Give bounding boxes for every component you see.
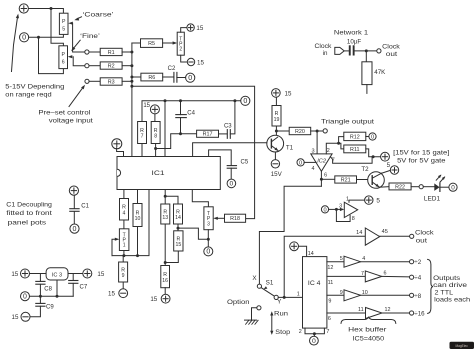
capacitor C4 (176, 114, 187, 116)
potentiometer TP2 (177, 32, 184, 55)
svg-text:R1: R1 (108, 50, 115, 56)
node junction on + wire (50, 7, 53, 10)
svg-text:15: 15 (175, 242, 181, 248)
switch S1 blade (261, 288, 274, 297)
terminal div8 (410, 293, 414, 297)
terminal triangle output (323, 129, 327, 133)
wire 0 to gate input (329, 208, 341, 210)
node gate feedback junction (335, 208, 338, 211)
wire IC4 pins 2 7 ground (305, 328, 324, 334)
terminal R3 preset input (85, 79, 89, 83)
transistor T2 (368, 172, 385, 189)
node C8 junction (39, 295, 42, 298)
wire 0 rail to IC1 pin (164, 101, 166, 157)
svg-text:1: 1 (123, 243, 126, 249)
svg-text:R12: R12 (350, 134, 360, 140)
wire + to C1 (73, 195, 75, 208)
wire node to R11 (339, 143, 344, 149)
wire feedback R18 to bus (132, 86, 255, 218)
svg-text:Clock: Clock (415, 229, 435, 236)
wire T1 collector (275, 131, 277, 136)
wire R14 node to TP3 bottom (178, 228, 208, 239)
svg-text:C4: C4 (187, 110, 195, 116)
wire R9 to -15 (122, 282, 124, 289)
wire R21 to T2 base (357, 179, 368, 181)
svg-text:T1: T1 (286, 145, 294, 152)
svg-text:10µF: 10µF (347, 39, 361, 46)
svg-text:out: out (386, 51, 398, 58)
svg-text:12: 12 (385, 307, 391, 313)
watermark box (450, 342, 474, 349)
terminal 0 gate input (321, 206, 328, 213)
wire gate pin1 to +5 (349, 200, 365, 202)
terminal + IC1 left (112, 139, 122, 149)
wire oscillator output to switch X (259, 186, 321, 284)
svg-text:Network 1: Network 1 (334, 29, 369, 36)
svg-text:9: 9 (122, 273, 125, 279)
svg-text:11: 11 (328, 280, 334, 286)
svg-text:5V for 5V gate: 5V for 5V gate (397, 158, 446, 165)
svg-text:15: 15 (197, 59, 204, 66)
svg-text:Clock: Clock (382, 44, 401, 51)
node C3 0-rail junction (233, 99, 236, 102)
svg-text:5: 5 (62, 26, 65, 32)
capacitor C5 (227, 165, 236, 167)
svg-text:loads each: loads each (434, 297, 471, 304)
wire Y to IC4 pin1 (278, 296, 302, 298)
svg-text:C3: C3 (224, 123, 232, 129)
terminal R1 input (85, 50, 89, 54)
brace hex buffer (341, 317, 396, 323)
terminal +15 R16 (161, 294, 170, 303)
wire R3 input to R3 (89, 80, 100, 82)
terminal + IC4 supply (290, 242, 299, 251)
svg-text:15: 15 (12, 314, 19, 321)
svg-text:0: 0 (243, 97, 247, 105)
svg-text:Option: Option (227, 299, 250, 306)
wire R1 to bus (122, 51, 132, 53)
wire TP2 top to +15 (181, 28, 187, 33)
node 47K junction (365, 49, 368, 52)
svg-text:11: 11 (358, 307, 364, 313)
svg-text:9: 9 (328, 298, 331, 304)
wire to IC2 pin 3 (316, 131, 318, 154)
svg-text:6: 6 (324, 172, 327, 178)
wire R4 to TP1 (123, 220, 125, 229)
capacitor C9 (36, 302, 45, 304)
resistor R1 (100, 48, 122, 55)
wire R11 to supply + (366, 149, 381, 157)
svg-text:C1 Decoupling: C1 Decoupling (6, 202, 52, 209)
node TP3 bottom junction (207, 238, 210, 241)
svg-text:fitted to front: fitted to front (6, 210, 52, 217)
terminal 0 TP3 (204, 247, 213, 256)
wire buffer to div16 (382, 312, 409, 314)
wire IC1 to TP1 rail (112, 190, 149, 256)
wire C4 top to 0 rail (180, 101, 182, 115)
wire C7 top (72, 274, 74, 281)
svg-text:R5: R5 (148, 41, 155, 47)
wire + to IC1 pin (117, 148, 124, 157)
capacitor C3 (226, 130, 228, 139)
wire clock to buffer (284, 236, 365, 297)
terminal +15 above R8 (150, 105, 159, 114)
svg-text:0: 0 (299, 160, 302, 166)
IC IC4 (303, 257, 327, 329)
wire R13 bottom to R16 (164, 224, 166, 266)
node C4 top junction (179, 99, 182, 102)
svg-text:S1: S1 (266, 279, 274, 286)
svg-text:R3: R3 (108, 79, 115, 85)
resistor R10 (133, 204, 142, 227)
svg-text:out: out (416, 238, 428, 245)
wire P6 wiper to R2 input (73, 57, 85, 66)
svg-text:0: 0 (371, 134, 374, 140)
wiper arrow P5 (68, 22, 73, 25)
terminal +15 IC3 left (21, 269, 30, 278)
wire +15 to IC3 (30, 273, 47, 275)
svg-text:C1: C1 (81, 204, 89, 210)
terminal 0 IC4 (310, 336, 319, 345)
svg-text:Hex buffer: Hex buffer (348, 326, 386, 333)
resistor R8 (151, 122, 160, 144)
label Run with arrow (271, 315, 273, 332)
wire rail to R9 (122, 256, 124, 262)
svg-text:4: 4 (123, 210, 126, 216)
terminal div16 (410, 311, 414, 315)
wire junction to R14 (165, 196, 178, 204)
node R13 R15 R16 junction (164, 261, 167, 264)
node R13 R14 junction (164, 195, 167, 198)
wire +15 to R8 (154, 114, 156, 122)
wire R22 to LED node (411, 186, 419, 188)
wire C1 to 0 (73, 212, 75, 225)
terminal +15 IC3 right (83, 269, 92, 278)
wire capacitor to clock out (355, 50, 377, 52)
svg-text:Stop: Stop (275, 329, 290, 336)
wire IC1 to R10 (137, 190, 139, 204)
resistor R16 (161, 266, 170, 288)
wire 0 junction to P6 bottom (39, 37, 64, 73)
svg-text:Triangle output: Triangle output (321, 118, 374, 125)
terminal -15 TP2 (187, 58, 194, 65)
svg-text:0: 0 (312, 338, 316, 345)
terminal 0 C1 (70, 224, 79, 233)
svg-text:14: 14 (356, 230, 362, 236)
wire TP1 bottom to rail (123, 251, 125, 256)
wire + terminal to P5 top (28, 9, 63, 14)
wire R6 to C2 (163, 76, 174, 78)
svg-text:Outputs: Outputs (433, 275, 460, 282)
wire R8 to IC1 (155, 144, 157, 157)
svg-text:0: 0 (451, 184, 455, 191)
resistor R6 (141, 73, 163, 81)
wire C2 to 0 terminal (177, 77, 186, 79)
terminal +5 T2 (390, 166, 398, 174)
resistor R13 (161, 204, 170, 224)
svg-text:15: 15 (97, 271, 104, 278)
terminal 0 LED (449, 183, 457, 191)
wire R10 to rail (137, 227, 139, 256)
wire R20 to triangle output (311, 130, 323, 132)
svg-text:voltage input: voltage input (49, 118, 93, 125)
svg-text:R17: R17 (203, 132, 213, 138)
wire IC1 to R4 (123, 190, 125, 199)
svg-text:6: 6 (62, 60, 65, 66)
node R14 R15 junction (177, 227, 180, 230)
wire 0 rail IC3 (30, 295, 74, 297)
svg-text:6: 6 (384, 271, 387, 277)
terminal + gate supply (381, 152, 390, 161)
resistor 47K (362, 62, 372, 85)
svg-text:T2: T2 (361, 166, 369, 173)
wire R17 to C3 (219, 133, 228, 135)
wire IC1 pin to C5 (209, 150, 232, 165)
terminal 0 rail right (241, 96, 250, 105)
wire R15 to junction (165, 251, 178, 263)
wire C4 bottom to R17 wire (180, 118, 182, 134)
svg-text:5: 5 (340, 256, 343, 262)
wire arrow to capacitor (344, 50, 348, 52)
resistor R3 (100, 78, 122, 85)
wire 47K bottom (366, 85, 368, 94)
node 0-rail IC1 pin junction (164, 99, 167, 102)
svg-text:3: 3 (311, 148, 314, 154)
svg-text:13: 13 (162, 215, 168, 221)
wire IC3 ground pin (56, 280, 58, 296)
svg-text:8: 8 (154, 134, 157, 140)
svg-text:0: 0 (230, 181, 234, 188)
wire C8 top (39, 274, 41, 282)
capacitor C1 (70, 208, 79, 210)
resistor R20 (289, 127, 311, 134)
svg-text:‘Fine’: ‘Fine’ (80, 33, 100, 40)
svg-text:0: 0 (23, 294, 27, 301)
op-amp IC2 (311, 154, 332, 171)
svg-text:1: 1 (297, 291, 300, 297)
wire C3 to 0 rail (230, 101, 235, 134)
svg-text:0: 0 (22, 34, 26, 42)
ground symbol (245, 319, 257, 321)
wire 0 terminal to P5 bottom (29, 34, 64, 37)
wire + junction to P6 top (51, 9, 63, 46)
resistor R11 (344, 145, 366, 153)
wire T1 emitter to -15V (274, 152, 276, 160)
node R6 junction (130, 76, 133, 79)
resistor R14 (174, 204, 183, 224)
potentiometer TP1 (119, 229, 128, 251)
node ground junction (313, 332, 316, 335)
svg-text:R20: R20 (295, 129, 305, 135)
wire buffer to div4 (382, 275, 410, 278)
terminal 0 R12 (369, 133, 376, 140)
svg-text:3: 3 (207, 221, 210, 227)
node R8 R17 junction (154, 147, 157, 150)
svg-text:12: 12 (327, 265, 333, 271)
wire R12 to 0 (366, 136, 369, 138)
wire C8 bottom to 0 rail (39, 284, 41, 296)
wire IC1 to TP3 (192, 190, 208, 207)
svg-text:R22: R22 (395, 184, 405, 190)
svg-text:14: 14 (175, 215, 181, 221)
resistor R5 (141, 39, 163, 48)
svg-text:7: 7 (141, 134, 144, 140)
clock in arrow symbol (335, 47, 344, 54)
wire R17 to R8 pin (156, 134, 197, 149)
svg-text:2: 2 (327, 148, 330, 154)
terminal clock out network (377, 49, 381, 53)
wire summing bus vertical (131, 43, 133, 157)
resistor R19 (272, 106, 281, 127)
IC IC1 (117, 157, 220, 190)
svg-text:panel pots: panel pots (8, 219, 47, 226)
annotation arrow Coarse (76, 17, 81, 19)
wire R2 input to R2 (89, 65, 100, 67)
wire LED1 to 0 (440, 186, 449, 188)
svg-text:7: 7 (361, 271, 364, 277)
svg-text:P: P (62, 19, 66, 25)
wire C9 bottom to -15 (30, 306, 40, 317)
svg-text:8: 8 (352, 216, 355, 222)
wire T2 collector to +5 (382, 170, 391, 173)
svg-text:45: 45 (382, 229, 388, 235)
resistor R4 (120, 199, 129, 221)
svg-text:15: 15 (143, 103, 150, 109)
svg-text:R21: R21 (341, 177, 351, 183)
node IC2 pin3 junction (316, 130, 319, 133)
svg-text:C2: C2 (168, 66, 176, 72)
wire 0 to IC2 pin4 (304, 161, 316, 163)
wire IC4 to buffer 7-6 (327, 275, 365, 277)
svg-text:IC2: IC2 (317, 158, 327, 164)
terminal 0 C5 (227, 179, 236, 188)
terminal 0 IC3 (21, 292, 30, 301)
svg-text:4: 4 (312, 166, 315, 172)
svg-text:IC1: IC1 (152, 170, 165, 177)
terminal div4 (410, 275, 414, 279)
wire +15 to R19 (275, 97, 277, 105)
svg-text:R2: R2 (108, 63, 115, 69)
wire TP3 wiper to R18 (217, 217, 225, 219)
buffer gate spare (344, 202, 357, 217)
resistor R17 (197, 130, 219, 137)
node C4 R17 junction (179, 132, 182, 135)
svg-text:Pre–set control: Pre–set control (38, 110, 90, 117)
wiper arrow TP3 (213, 217, 218, 220)
svg-text:47K: 47K (374, 69, 386, 76)
terminal R2 input (85, 64, 89, 68)
svg-text:÷8: ÷8 (414, 293, 421, 300)
brace outputs (428, 259, 433, 313)
wire IC1 to R13 R14 (164, 190, 166, 205)
wire C9 top (39, 296, 41, 303)
svg-text:2: 2 (179, 47, 182, 53)
svg-text:9: 9 (340, 290, 343, 296)
node feedback junction (130, 85, 133, 88)
svg-text:÷2: ÷2 (414, 259, 421, 266)
svg-text:2: 2 (299, 329, 302, 335)
annotation arrow preset input (69, 87, 84, 107)
wire IC2 pin6 output (320, 171, 322, 186)
svg-text:0: 0 (323, 207, 326, 213)
svg-text:0: 0 (73, 225, 77, 233)
svg-text:15: 15 (150, 296, 157, 303)
svg-text:6: 6 (328, 316, 331, 322)
wire IC4 to buffer 5-4 (327, 261, 344, 263)
terminal Y contact (274, 295, 278, 299)
resistor R22 (389, 183, 411, 190)
wire IC4 to buffer 11-12 (327, 312, 366, 314)
resistor R12 (344, 132, 366, 140)
node clock junction (283, 296, 286, 299)
node pin6 junction (320, 178, 323, 181)
svg-text:0: 0 (188, 74, 192, 82)
svg-text:Clock: Clock (315, 43, 333, 50)
wire R7 to IC1 (141, 144, 143, 157)
resistor R7 (138, 122, 147, 144)
resistor R9 (119, 262, 128, 282)
terminal X contact (257, 284, 261, 288)
wiper arrow P6 (68, 55, 73, 58)
svg-text:can drive: can drive (433, 282, 468, 289)
terminal -15 R9 (119, 289, 128, 298)
svg-text:C8: C8 (44, 286, 52, 292)
svg-text:IC 4: IC 4 (308, 280, 321, 287)
svg-text:0: 0 (206, 249, 210, 256)
capacitor C7 (69, 280, 78, 282)
wire + to IC4 pin14 (299, 246, 307, 256)
svg-text:R6: R6 (148, 75, 155, 81)
wire T2 emitter to R22 (379, 186, 389, 189)
terminal -15V T1 (271, 160, 279, 168)
annotation arrow Fine (73, 40, 81, 49)
terminal +15 TP2 (187, 24, 194, 31)
svg-text:15V: 15V (271, 171, 283, 178)
svg-text:7: 7 (326, 329, 329, 335)
svg-text:16: 16 (162, 278, 168, 284)
svg-text:[15V for 15 gate]: [15V for 15 gate] (393, 150, 450, 157)
wire bus to R6 (132, 76, 141, 78)
node IC3 ground junction (56, 295, 59, 298)
node R3 junction (130, 80, 133, 83)
node supply junction (372, 155, 375, 158)
wire buffer to clock out (380, 235, 410, 237)
svg-text:15: 15 (285, 90, 292, 97)
svg-text:19: 19 (274, 117, 280, 123)
terminal -15 IC3 (21, 312, 30, 321)
wire T1 base from IC1 (193, 143, 267, 157)
wire C5 to 0 (230, 168, 232, 179)
wire R19 to node (275, 126, 277, 131)
wire R1 input to R1 (89, 51, 100, 53)
wiper arrow TP1 (115, 238, 120, 241)
wire TP3 bottom to 0 (207, 230, 209, 247)
wire 0 rail (142, 101, 241, 122)
svg-text:3: 3 (339, 203, 342, 209)
wire node to LED1 (423, 186, 434, 188)
terminal +15 above R19 (272, 89, 281, 98)
potentiometer P5 (59, 13, 68, 34)
wire IC3 to +15 right (68, 273, 83, 275)
wire IC2 pin7 to supply (330, 157, 372, 164)
gate input arrow (340, 208, 344, 211)
resistor R21 (335, 176, 357, 183)
wire R14 to R15 (177, 224, 179, 231)
IC IC3 (46, 268, 68, 280)
node R2 junction (130, 64, 133, 67)
terminal 0 after C2 (186, 73, 195, 82)
wire node to R20 (276, 130, 289, 132)
